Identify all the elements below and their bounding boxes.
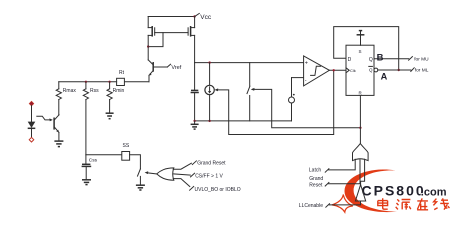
wire LLCenable bbox=[299, 201, 361, 209]
node comparator output bbox=[333, 69, 335, 71]
svg-text:Clk: Clk bbox=[350, 68, 356, 73]
svg-text:-: - bbox=[305, 78, 307, 84]
node Vcc bbox=[193, 15, 195, 17]
wire bottom rail bbox=[195, 120, 292, 122]
svg-text:Rss: Rss bbox=[90, 88, 99, 94]
transistor M2 PMOS right bbox=[188, 17, 195, 63]
wire OR1 input CS/FF bbox=[174, 173, 224, 179]
svg-text:.com: .com bbox=[421, 187, 447, 199]
glyph dian bbox=[378, 198, 388, 209]
terminal opto cathode bbox=[29, 137, 34, 142]
svg-text:Rt: Rt bbox=[119, 70, 125, 76]
wire R net bbox=[359, 95, 361, 143]
wire gate-drain tie bbox=[148, 33, 163, 47]
node loop to A bbox=[398, 69, 400, 71]
wire OR2 input Latch bbox=[309, 159, 355, 173]
transistor M1 PMOS left bbox=[148, 17, 155, 37]
glyph yuan bbox=[396, 199, 411, 209]
svg-text:Rmin: Rmin bbox=[113, 88, 125, 94]
capacitor C1 bbox=[191, 63, 199, 121]
buffer U4 LLC enable bbox=[355, 185, 365, 201]
wire SS to switch bbox=[130, 155, 141, 169]
wire OR2 input from buffer bbox=[361, 159, 365, 184]
watermark red C swoosh bbox=[344, 170, 397, 213]
svg-text:Grand Reset: Grand Reset bbox=[197, 160, 226, 166]
wire OR1 input UVLO bbox=[173, 179, 241, 193]
wire D feedback loop bbox=[334, 27, 399, 70]
gate OR1 reset-SS bbox=[157, 168, 174, 180]
node I1 bottom bbox=[208, 120, 210, 122]
ground timing rail bbox=[191, 121, 199, 129]
box SS bbox=[122, 152, 130, 161]
svg-text:+: + bbox=[305, 61, 308, 67]
node gate-drain junction bbox=[147, 45, 149, 47]
node Rss top bbox=[85, 81, 87, 83]
source V1 comparator threshold bbox=[289, 78, 304, 121]
wire comparator output to Clk bbox=[329, 69, 346, 71]
svg-text:for ML: for ML bbox=[415, 67, 429, 73]
wire Q output bbox=[374, 58, 409, 60]
svg-text:Vref: Vref bbox=[171, 65, 181, 71]
svg-text:CS/FF > 1 V: CS/FF > 1 V bbox=[195, 174, 223, 180]
wire Vcc rail bbox=[148, 16, 194, 18]
wire Qbar output bbox=[378, 69, 411, 71]
switch SW2 discharge bbox=[247, 63, 250, 121]
capacitor Css bbox=[82, 155, 98, 180]
resistor Rss bbox=[83, 82, 99, 155]
wire OR2 input Grand Reset bbox=[309, 160, 360, 189]
svg-text:Q: Q bbox=[369, 68, 373, 73]
node Rmin top bbox=[108, 81, 110, 83]
ground Css bbox=[82, 180, 91, 185]
svg-text:Reset: Reset bbox=[309, 183, 323, 189]
svg-text:A: A bbox=[381, 71, 388, 81]
gate OR2 fault bbox=[353, 144, 369, 161]
transistor Q2 photo NPN bbox=[54, 114, 59, 140]
svg-text:LLCenable: LLCenable bbox=[299, 203, 323, 209]
opto light arrow bbox=[37, 116, 53, 121]
wire SW2 control from OR2 bbox=[251, 88, 361, 128]
watermark star bbox=[332, 195, 353, 213]
svg-text:Q: Q bbox=[369, 57, 373, 63]
resistor Rmin bbox=[107, 82, 124, 113]
svg-text:for MU: for MU bbox=[414, 56, 429, 62]
comparator U1 bbox=[304, 56, 330, 86]
wire I1 control from comparator bbox=[214, 70, 333, 134]
svg-text:B: B bbox=[377, 52, 384, 63]
svg-text:Grand: Grand bbox=[309, 176, 323, 182]
svg-text:D: D bbox=[348, 57, 352, 63]
glyph xian bbox=[433, 198, 449, 209]
wire SW1 control from OR1 bbox=[145, 171, 157, 174]
svg-text:Rmax: Rmax bbox=[63, 88, 77, 94]
switch SW1 soft-start discharge bbox=[138, 169, 141, 185]
node cap bottom bbox=[193, 120, 195, 122]
wire SS line bbox=[86, 154, 122, 156]
current source I1 bbox=[205, 63, 214, 121]
resistor Rmax bbox=[56, 82, 76, 115]
ground Q2 emitter bbox=[54, 141, 63, 147]
svg-text:UVLO_BO or IOBLO: UVLO_BO or IOBLO bbox=[195, 187, 241, 193]
watermark chinese 电源在线 bbox=[378, 198, 450, 210]
svg-text:SS: SS bbox=[123, 143, 130, 149]
ground Rmin bbox=[106, 113, 114, 119]
wire gate bus bbox=[155, 32, 188, 34]
transistor Q1 NPN Vref bbox=[148, 35, 153, 81]
wire OR1 input Grand Reset bbox=[173, 160, 226, 169]
resistor Rt box bbox=[124, 81, 149, 83]
svg-text:CPS800: CPS800 bbox=[362, 183, 426, 199]
wire timing rail bbox=[195, 62, 304, 64]
glyph zai bbox=[417, 198, 428, 209]
label for ML bbox=[411, 67, 429, 73]
diode D1 opto LED bbox=[28, 106, 36, 138]
label for MU bbox=[409, 56, 430, 62]
svg-text:Latch: Latch bbox=[309, 167, 321, 173]
node I1 top bbox=[208, 61, 210, 63]
svg-text:Css: Css bbox=[89, 158, 98, 164]
terminal opto anode bbox=[29, 101, 34, 106]
wire resistor rail bbox=[59, 81, 117, 83]
svg-text:S: S bbox=[359, 49, 362, 54]
node Vref base lead bbox=[154, 66, 167, 68]
svg-text:Vcc: Vcc bbox=[200, 14, 212, 21]
logic-1 tie at S bbox=[357, 31, 365, 46]
ground SW1 bbox=[136, 185, 145, 190]
flip-flop U3 bbox=[346, 45, 378, 95]
node SW2 control to R net bbox=[359, 127, 361, 129]
